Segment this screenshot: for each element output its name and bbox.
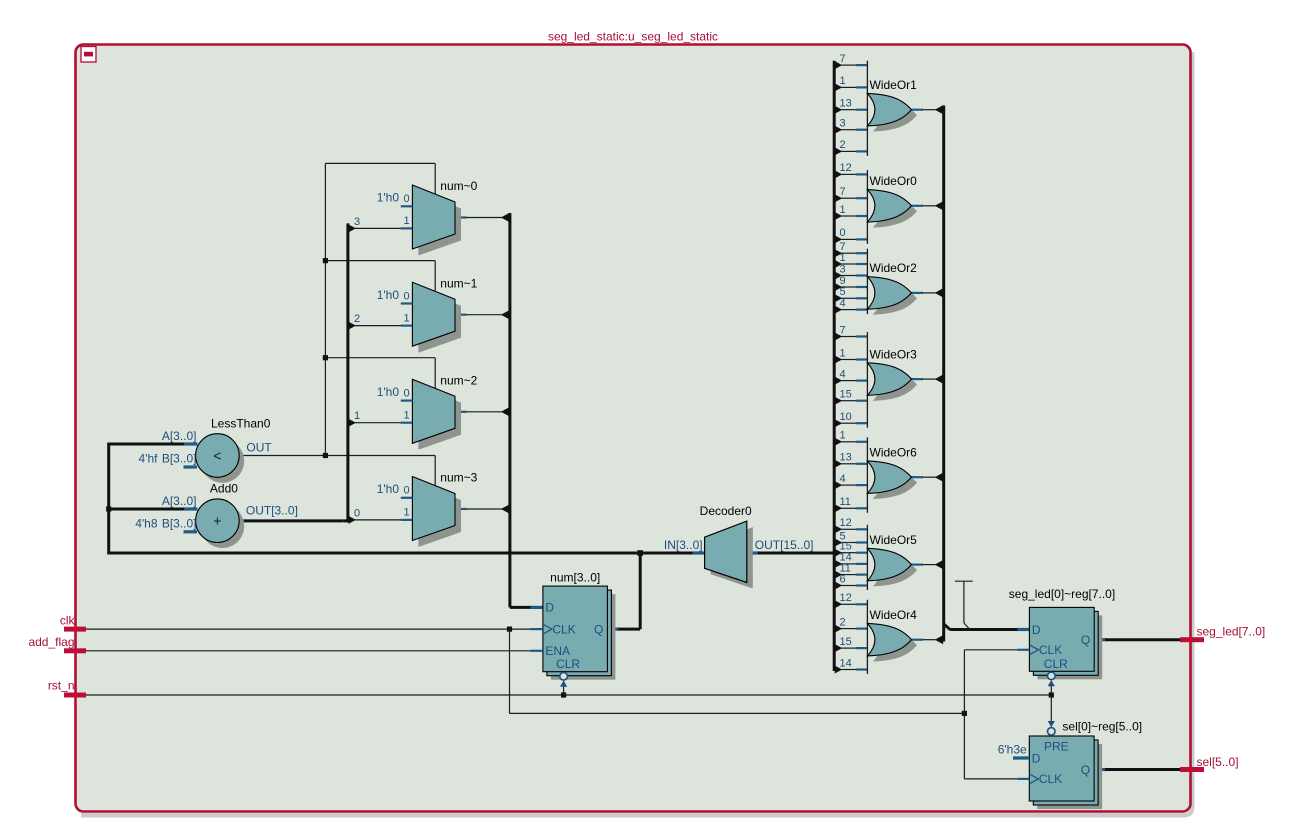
bus tap arrow WideOr5 input 14 <box>835 560 843 568</box>
svg-text:0: 0 <box>403 290 409 302</box>
svg-text:CLK: CLK <box>1039 772 1062 786</box>
wire clk horizontal to num CLK <box>86 628 531 630</box>
register num[3..0] back copy <box>547 590 612 676</box>
wire WideOr5 input 12 <box>841 528 856 530</box>
svg-text:1'h0: 1'h0 <box>377 288 400 302</box>
merge arrow WideOr2 output <box>935 288 944 297</box>
svg-text:1: 1 <box>354 410 360 422</box>
svg-text:12: 12 <box>840 592 852 604</box>
svg-text:LessThan0: LessThan0 <box>211 417 271 431</box>
junction select distribution bottom <box>323 453 328 458</box>
register sel[0]~reg[5..0] <box>1029 736 1094 801</box>
svg-text:WideOr3: WideOr3 <box>870 347 918 361</box>
wire clk down to sel CLK <box>963 713 965 779</box>
wire sel CLK stub <box>1017 778 1029 780</box>
svg-text:1'h0: 1'h0 <box>377 385 400 399</box>
mux num~0 <box>412 185 455 249</box>
svg-text:0: 0 <box>403 485 409 497</box>
wire num Q to riser <box>618 628 640 631</box>
svg-text:0: 0 <box>840 227 846 239</box>
svg-text:PRE: PRE <box>1044 739 1069 753</box>
wire clk bottom horizontal <box>510 712 965 714</box>
wire add_flag to ENA <box>86 650 531 652</box>
svg-text:1: 1 <box>403 507 409 519</box>
port 0 stub num~2 <box>401 400 413 402</box>
preset bubble (sel[0]~reg[5..0]) <box>1048 728 1056 736</box>
input pin rst_n <box>64 693 86 698</box>
svg-text:13: 13 <box>840 98 852 110</box>
svg-text:A[3..0]: A[3..0] <box>162 429 197 443</box>
bus tap arrow bit 2 <box>348 322 356 330</box>
svg-text:6'h3e: 6'h3e <box>998 743 1027 757</box>
wire WideOr2 output <box>912 292 924 294</box>
bus tap arrow WideOr0 input 1 <box>835 212 843 220</box>
wire WideOr1 input 7 <box>841 64 856 66</box>
svg-text:1: 1 <box>403 215 409 227</box>
junction num Q on feedback bus <box>637 550 643 556</box>
svg-text:1: 1 <box>840 75 846 87</box>
merge arrow WideOr4 output <box>935 635 944 644</box>
merge arrow WideOr1 output <box>935 105 944 114</box>
constant stub 4'h8 to B <box>184 530 198 533</box>
wire WideOr4 input 15 <box>841 647 856 649</box>
svg-text:IN[3..0]: IN[3..0] <box>664 538 703 552</box>
port CLK wedge (num[3..0]) <box>543 624 552 634</box>
wire WideOr6 input 13 <box>841 463 856 465</box>
wire select branch to mux num~2 <box>325 357 435 359</box>
or-gate WideOr2 shadow <box>873 282 917 315</box>
merge arrow num~1 output <box>501 310 510 319</box>
svg-text:0: 0 <box>403 193 409 205</box>
wire LessThan0 OUT to num~3 select <box>239 455 435 457</box>
svg-text:7: 7 <box>840 53 846 65</box>
bus tap arrow bit 1 <box>348 419 356 427</box>
svg-text:3: 3 <box>840 263 846 275</box>
merge arrow num~0 output <box>501 213 510 222</box>
wire branch to LessThan0 A <box>107 443 186 446</box>
bus tap arrow bit 3 <box>348 224 356 232</box>
port CLK wedge (sel[0]~reg[5..0]) <box>1029 774 1038 784</box>
wire WideOr2 input 4 <box>841 309 856 311</box>
svg-text:1: 1 <box>403 410 409 422</box>
mux num~2 shadow <box>418 386 461 450</box>
wire WideOr0 input 1 <box>841 215 856 217</box>
wire WideOr4 input 12 <box>841 603 856 605</box>
svg-text:CLR: CLR <box>1044 657 1068 671</box>
register seg_led[0]~reg[7..0] back copy <box>1033 611 1098 675</box>
wire WideOr1 input 3 <box>841 129 856 131</box>
wire rst_n horizontal <box>86 694 1051 696</box>
or-gate WideOr5 input bar <box>866 525 868 590</box>
svg-text:<: < <box>213 448 221 464</box>
wire select branch to mux num~0 <box>325 162 435 164</box>
bus tap arrow WideOr1 input 13 <box>835 106 843 114</box>
wire tap bit 2 to num~1 port 1 <box>355 325 402 327</box>
svg-text:WideOr0: WideOr0 <box>870 174 918 188</box>
bus tap arrow WideOr3 input 4 <box>835 377 843 385</box>
svg-text:CLK: CLK <box>1039 643 1062 657</box>
svg-text:Q: Q <box>594 622 603 636</box>
wire rst_n to num CLR bubble <box>563 687 565 696</box>
bus tap arrow WideOr5 input 11 <box>835 571 843 579</box>
merge arrow WideOr5 output <box>935 560 944 569</box>
svg-text:4'h8: 4'h8 <box>135 517 158 531</box>
operator Add0 <box>196 499 240 543</box>
bus tap arrow WideOr4 input 15 <box>835 644 843 652</box>
input pin clk <box>64 627 86 632</box>
bus tap arrow WideOr1 input 3 <box>835 126 843 134</box>
bus tap arrow WideOr5 input 5 <box>835 539 843 547</box>
or-gate WideOr4 shadow <box>873 629 917 662</box>
bus tap arrow WideOr5 input 6 <box>835 582 843 590</box>
constant stub 4'hf to B <box>184 465 198 468</box>
bus tap arrow WideOr4 input 2 <box>835 625 843 633</box>
mux num~1 <box>412 282 455 346</box>
clear bubble (seg_led[0]~reg[7..0]) <box>1048 672 1056 680</box>
bus tap arrow WideOr6 input 1 <box>835 438 843 446</box>
wire WideOr6 output <box>912 476 924 478</box>
junction rst_n / num CLR <box>561 692 566 697</box>
wire num Q riser up <box>639 553 642 629</box>
wire tap bit 1 to num~2 port 1 <box>355 422 402 424</box>
wire clk up to seg_led CLK <box>963 650 965 714</box>
or-gate WideOr0 shadow <box>873 195 917 228</box>
svg-text:7: 7 <box>840 186 846 198</box>
wire mux output bus vertical <box>508 213 511 607</box>
svg-text:1: 1 <box>840 204 846 216</box>
wire WideOr0 input 12 <box>841 173 856 175</box>
wire WideOr0 output <box>912 205 924 207</box>
wire decoder IN stub <box>693 551 705 554</box>
wire num~0 output <box>455 216 467 218</box>
wire decoder out bus horizontal <box>758 552 834 555</box>
mux num~0 shadow <box>418 192 461 256</box>
svg-text:CLK: CLK <box>552 622 575 636</box>
wire WideOr3 input 15 <box>841 400 856 402</box>
svg-text:12: 12 <box>840 517 852 529</box>
svg-text:6: 6 <box>840 573 846 585</box>
wire rst_n to seg_led CLR bubble <box>1050 686 1052 695</box>
svg-text:1: 1 <box>403 312 409 324</box>
svg-text:4: 4 <box>840 297 846 309</box>
svg-text:4'hf: 4'hf <box>139 452 159 466</box>
wire WideOr0 input 7 <box>841 197 856 199</box>
svg-text:WideOr5: WideOr5 <box>870 533 918 547</box>
port 0 stub num~1 <box>401 302 413 304</box>
wire num CLK stub <box>531 628 543 630</box>
bus tap arrow WideOr6 input 11 <box>835 504 843 512</box>
svg-text:12: 12 <box>840 162 852 174</box>
mux num~1 shadow <box>418 289 461 353</box>
wire sel Q stub <box>1094 768 1106 771</box>
svg-text:WideOr6: WideOr6 <box>870 445 918 459</box>
wire WideOr6 input 1 <box>841 441 856 443</box>
svg-text:1: 1 <box>840 430 846 442</box>
wire or-output bus jog to seg_led D <box>944 624 950 630</box>
wire feedback bus num[3..0] horizontal <box>109 552 694 555</box>
svg-text:Q: Q <box>1081 763 1090 777</box>
or-gate WideOr4 <box>867 623 911 656</box>
wire num~1 output <box>455 314 467 316</box>
bus tap arrow WideOr4 input 14 <box>835 666 843 674</box>
wire WideOr1 input 13 <box>841 109 856 111</box>
bus tap arrow WideOr3 input 10 <box>835 419 843 427</box>
wire WideOr3 input 1 <box>841 359 856 361</box>
or-gate WideOr1 <box>867 93 911 126</box>
collapse button <box>81 47 96 63</box>
wire feedback bus left vertical <box>107 444 110 555</box>
vcc supply bar <box>955 580 973 582</box>
svg-text:WideOr4: WideOr4 <box>870 608 918 622</box>
output pin seg_led[7..0] <box>1180 637 1204 642</box>
or-gate WideOr4 input bar <box>866 600 868 674</box>
svg-text:13: 13 <box>840 452 852 464</box>
or-gate WideOr6 <box>867 461 911 494</box>
svg-text:CLR: CLR <box>556 657 580 671</box>
wire WideOr5 input 6 <box>841 585 856 587</box>
wire WideOr2 input 5 <box>841 297 856 299</box>
wire WideOr2 input 7 <box>841 252 856 254</box>
wire tap bit 3 to num~0 port 1 <box>355 227 402 229</box>
wire WideOr0 input 0 <box>841 238 856 240</box>
svg-text:9: 9 <box>840 275 846 287</box>
bus tap arrow WideOr6 input 4 <box>835 481 843 489</box>
svg-text:seg_led[7..0]: seg_led[7..0] <box>1197 624 1266 638</box>
svg-text:B[3..0]: B[3..0] <box>162 452 197 466</box>
junction feedback bus / Add0 A <box>106 506 111 511</box>
svg-text:4: 4 <box>840 473 846 485</box>
decoder Decoder0 shadow <box>711 527 753 588</box>
LessThan0 shadow <box>201 439 245 483</box>
bus tap arrow WideOr0 input 0 <box>835 235 843 243</box>
svg-text:OUT[3..0]: OUT[3..0] <box>246 504 298 518</box>
wire WideOr3 input 7 <box>841 336 856 338</box>
bus tap arrow WideOr2 input 1 <box>835 260 843 268</box>
wire Add0 OUT stub <box>239 519 246 522</box>
register sel[0]~reg[5..0] shadow <box>1037 744 1102 809</box>
wire WideOr6 input 11 <box>841 507 856 509</box>
svg-text:WideOr1: WideOr1 <box>870 78 918 92</box>
svg-text:sel[5..0]: sel[5..0] <box>1197 755 1239 769</box>
bus tap arrow WideOr0 input 7 <box>835 194 843 202</box>
svg-text:15: 15 <box>840 541 852 553</box>
wire WideOr1 output <box>912 109 924 111</box>
port 0 stub num~0 <box>401 205 413 207</box>
wire vcc to seg_led D bus <box>963 581 965 623</box>
bus tap arrow WideOr1 input 1 <box>835 83 843 91</box>
wire WideOr3 input 4 <box>841 380 856 382</box>
arrow into CLR bubble (num[3..0]) <box>560 681 567 687</box>
bus tap arrow WideOr1 input 2 <box>835 147 843 155</box>
mux num~3 <box>412 477 455 541</box>
or-gate WideOr2 <box>867 277 911 310</box>
wire WideOr3 input 10 <box>841 422 856 424</box>
wire decoder out bus vertical <box>833 61 836 671</box>
mux num~2 <box>412 379 455 443</box>
wire num~2 output <box>455 411 467 413</box>
decoder Decoder0 <box>705 521 747 582</box>
junction select branch num~2 <box>323 355 328 360</box>
wire WideOr3 output <box>912 378 924 380</box>
svg-text:Q: Q <box>1081 633 1090 647</box>
module frame seg_led_static:u_seg_led_static <box>76 45 1191 812</box>
wire WideOr5 input 14 <box>841 563 856 565</box>
wire mux output bus to num D <box>510 606 531 609</box>
bus tap arrow WideOr2 input 7 <box>835 249 843 257</box>
wire WideOr1 input 1 <box>841 86 856 88</box>
mux num~3 shadow <box>418 483 461 547</box>
arrow into CLR bubble (seg_led[0]~reg[7..0]) <box>1048 680 1055 686</box>
register seg_led[0]~reg[7..0] <box>1029 607 1094 671</box>
wire WideOr2 input 9 <box>841 286 856 288</box>
output pin sel[5..0] <box>1180 767 1204 772</box>
bus tap arrow WideOr6 input 13 <box>835 460 843 468</box>
wire Decoder0 OUT stub <box>747 551 759 554</box>
register seg_led[0]~reg[7..0] shadow <box>1037 615 1102 679</box>
svg-text:num[3..0]: num[3..0] <box>550 570 600 584</box>
svg-text:seg_led_static:u_seg_led_stati: seg_led_static:u_seg_led_static <box>548 30 718 44</box>
register num[3..0] <box>543 586 608 672</box>
svg-text:WideOr2: WideOr2 <box>870 261 918 275</box>
wire WideOr2 input 1 <box>841 263 856 265</box>
port CLK wedge (seg_led[0]~reg[7..0]) <box>1029 645 1038 655</box>
or-gate WideOr2 input bar <box>866 249 868 314</box>
svg-text:3: 3 <box>840 118 846 130</box>
svg-text:Decoder0: Decoder0 <box>700 504 752 518</box>
svg-text:15: 15 <box>840 389 852 401</box>
operator LessThan0 <box>196 434 240 478</box>
bus tap arrow WideOr3 input 7 <box>835 333 843 341</box>
svg-text:14: 14 <box>840 657 852 669</box>
junction select branch num~1 <box>323 258 328 263</box>
or-gate WideOr1 input bar <box>866 61 868 156</box>
merge arrow num~2 output <box>501 407 510 416</box>
svg-text:15: 15 <box>840 636 852 648</box>
bus tap arrow WideOr0 input 12 <box>835 170 843 178</box>
input pin add_flag <box>64 648 86 653</box>
wire WideOr4 input 14 <box>841 669 856 671</box>
junction clk / clk riser <box>507 627 512 632</box>
svg-text:5: 5 <box>840 286 846 298</box>
svg-text:0: 0 <box>354 507 360 519</box>
wire WideOr2 input 3 <box>841 275 856 277</box>
bus tap arrow WideOr3 input 1 <box>835 356 843 364</box>
svg-text:1'h0: 1'h0 <box>377 482 400 496</box>
bus tap arrow WideOr5 input 12 <box>835 525 843 533</box>
svg-text:num~1: num~1 <box>440 276 477 290</box>
wire WideOr4 input 2 <box>841 628 856 630</box>
bus tap arrow bit 0 <box>348 516 356 524</box>
wire seg_led Q to output pin <box>1105 638 1181 641</box>
merge arrow WideOr6 output <box>935 473 944 482</box>
svg-text:1: 1 <box>840 252 846 264</box>
register sel[0]~reg[5..0] back copy <box>1033 740 1098 805</box>
wire WideOr4 output <box>912 639 924 641</box>
svg-text:D: D <box>1032 751 1041 765</box>
constant stub 6'h3e to sel D <box>1013 756 1029 759</box>
wire seg_led CLK stub <box>1017 649 1029 651</box>
svg-text:11: 11 <box>840 496 851 508</box>
wire WideOr1 input 2 <box>841 150 856 152</box>
svg-text:Add0: Add0 <box>210 482 238 496</box>
or-gate WideOr0 input bar <box>866 170 868 244</box>
or-gate WideOr6 shadow <box>873 466 917 499</box>
svg-text:num~0: num~0 <box>440 179 477 193</box>
svg-text:0: 0 <box>403 387 409 399</box>
svg-text:1: 1 <box>840 347 846 359</box>
junction clk branch to registers <box>962 711 967 716</box>
svg-text:clk: clk <box>60 614 76 628</box>
svg-text:sel[0]~reg[5..0]: sel[0]~reg[5..0] <box>1062 720 1142 734</box>
svg-text:D: D <box>545 601 554 615</box>
svg-text:10: 10 <box>840 411 852 423</box>
svg-text:+: + <box>213 513 221 529</box>
svg-text:2: 2 <box>840 139 846 151</box>
clear bubble (num[3..0]) <box>560 673 568 681</box>
wire or-output bus vertical <box>942 106 945 642</box>
wire branch to Add0 A <box>109 508 186 511</box>
frame shadow <box>81 52 1192 815</box>
or-gate WideOr5 shadow <box>873 554 917 587</box>
register num[3..0] shadow <box>551 594 616 680</box>
bus tap arrow WideOr4 input 12 <box>835 600 843 608</box>
bus tap arrow WideOr2 input 4 <box>835 306 843 314</box>
wire WideOr5 input 11 <box>841 574 856 576</box>
or-gate WideOr3 <box>867 363 911 396</box>
wire num ENA stub <box>531 650 543 652</box>
wire rst_n to sel PRE bubble <box>1050 695 1052 722</box>
svg-text:seg_led[0]~reg[7..0]: seg_led[0]~reg[7..0] <box>1009 587 1115 601</box>
bus tap arrow WideOr3 input 15 <box>835 397 843 405</box>
wire WideOr5 input 5 <box>841 542 856 544</box>
svg-text:num~3: num~3 <box>440 471 477 485</box>
svg-text:OUT: OUT <box>246 440 272 454</box>
bus tap arrow WideOr1 input 7 <box>835 61 843 69</box>
merge arrow WideOr3 output <box>935 375 944 384</box>
wire num Q stub <box>607 627 619 630</box>
svg-text:1'h0: 1'h0 <box>377 191 400 205</box>
or-gate WideOr5 <box>867 548 911 581</box>
svg-text:B[3..0]: B[3..0] <box>162 517 197 531</box>
svg-text:4: 4 <box>840 368 846 380</box>
arrow into PRE bubble (sel[0]~reg[5..0]) <box>1048 721 1055 727</box>
svg-text:add_flag: add_flag <box>28 635 74 649</box>
svg-text:3: 3 <box>354 216 360 228</box>
wire select distribution vertical <box>324 163 326 455</box>
wire Add0 OUT bus horizontal <box>244 519 344 522</box>
wire select branch to mux num~1 <box>325 260 435 262</box>
junction rst_n / seg_led CLR and sel PRE <box>1049 692 1054 697</box>
or-gate WideOr3 input bar <box>866 332 868 428</box>
svg-text:ENA: ENA <box>545 644 570 658</box>
svg-text:num~2: num~2 <box>440 373 477 387</box>
bus tap arrow WideOr2 input 9 <box>835 283 843 291</box>
svg-text:rst_n: rst_n <box>48 679 75 693</box>
wire seg_led Q stub <box>1094 638 1106 641</box>
bus tap arrow WideOr2 input 3 <box>835 272 843 280</box>
wire WideOr5 input 15 <box>841 552 856 554</box>
Add0 shadow <box>201 504 245 548</box>
svg-text:D: D <box>1032 623 1041 637</box>
or-gate WideOr1 shadow <box>873 99 917 132</box>
merge arrow num~3 output <box>501 504 510 513</box>
svg-text:OUT[15..0]: OUT[15..0] <box>755 538 814 552</box>
wire WideOr6 input 4 <box>841 484 856 486</box>
svg-text:A[3..0]: A[3..0] <box>162 494 197 508</box>
svg-text:2: 2 <box>840 616 846 628</box>
wire clk riser down <box>509 629 511 713</box>
bus tap arrow WideOr5 input 15 <box>835 549 843 557</box>
